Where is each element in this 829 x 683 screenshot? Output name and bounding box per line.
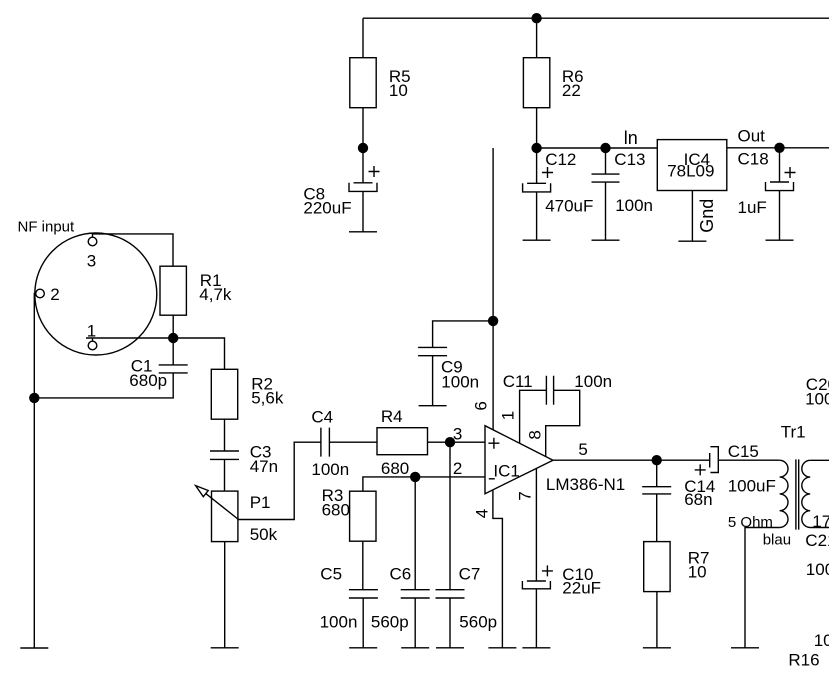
svg-text:C21: C21 <box>805 531 829 550</box>
svg-text:4: 4 <box>472 509 491 518</box>
svg-text:560p: 560p <box>459 613 497 632</box>
svg-text:C5: C5 <box>320 565 342 584</box>
svg-text:680: 680 <box>381 459 409 478</box>
svg-text:220uF: 220uF <box>303 199 351 218</box>
svg-text:10: 10 <box>688 562 707 581</box>
svg-text:C11: C11 <box>503 372 533 391</box>
svg-text:100n: 100n <box>311 460 349 479</box>
svg-text:6: 6 <box>471 401 490 410</box>
svg-text:100n: 100n <box>805 389 829 408</box>
svg-text:C7: C7 <box>459 565 481 584</box>
svg-text:68n: 68n <box>684 490 712 509</box>
svg-text:5 Ohm: 5 Ohm <box>728 514 773 531</box>
svg-text:P1: P1 <box>250 493 271 512</box>
svg-text:470uF: 470uF <box>545 196 593 215</box>
svg-text:2: 2 <box>50 285 59 304</box>
svg-text:100n: 100n <box>320 613 358 632</box>
svg-text:Gnd: Gnd <box>697 199 717 233</box>
svg-text:2: 2 <box>453 459 462 478</box>
svg-text:100n: 100n <box>615 196 653 215</box>
svg-text:100n: 100n <box>441 373 479 392</box>
svg-text:8: 8 <box>526 430 545 439</box>
svg-text:680p: 680p <box>129 371 167 390</box>
svg-text:1uF: 1uF <box>738 198 767 217</box>
svg-text:10: 10 <box>814 631 829 650</box>
svg-text:IC1: IC1 <box>493 462 519 481</box>
svg-text:560p: 560p <box>371 613 409 632</box>
svg-text:4,7k: 4,7k <box>199 285 232 304</box>
svg-text:7: 7 <box>516 491 535 500</box>
svg-text:1: 1 <box>87 322 96 341</box>
svg-text:100n: 100n <box>574 372 612 391</box>
svg-text:ln: ln <box>624 128 638 148</box>
svg-text:5: 5 <box>578 440 587 459</box>
svg-text:LM386-N1: LM386-N1 <box>546 475 625 494</box>
svg-text:C4: C4 <box>311 408 333 427</box>
svg-text:Tr1: Tr1 <box>781 423 806 442</box>
svg-text:R4: R4 <box>381 407 403 426</box>
svg-text:R16: R16 <box>788 651 819 670</box>
svg-text:C15: C15 <box>728 442 759 461</box>
svg-text:50k: 50k <box>250 525 278 544</box>
svg-text:22: 22 <box>562 81 581 100</box>
svg-text:22uF: 22uF <box>562 578 601 597</box>
svg-text:170: 170 <box>812 512 829 531</box>
svg-text:3: 3 <box>453 424 462 443</box>
svg-text:blau: blau <box>763 532 791 549</box>
svg-text:1: 1 <box>498 411 517 420</box>
svg-text:C12: C12 <box>545 150 576 169</box>
svg-text:78L09: 78L09 <box>667 162 714 181</box>
svg-text:100u: 100u <box>806 560 829 579</box>
svg-text:3: 3 <box>87 251 96 270</box>
svg-text:Out: Out <box>738 127 766 146</box>
svg-text:C6: C6 <box>390 565 412 584</box>
svg-text:C18: C18 <box>738 150 769 169</box>
svg-text:100uF: 100uF <box>728 477 776 496</box>
svg-text:47n: 47n <box>250 457 278 476</box>
svg-text:10: 10 <box>389 81 408 100</box>
svg-text:NF input: NF input <box>18 218 76 235</box>
svg-text:C13: C13 <box>614 150 645 169</box>
svg-text:5,6k: 5,6k <box>251 389 284 408</box>
svg-text:680: 680 <box>322 500 350 519</box>
